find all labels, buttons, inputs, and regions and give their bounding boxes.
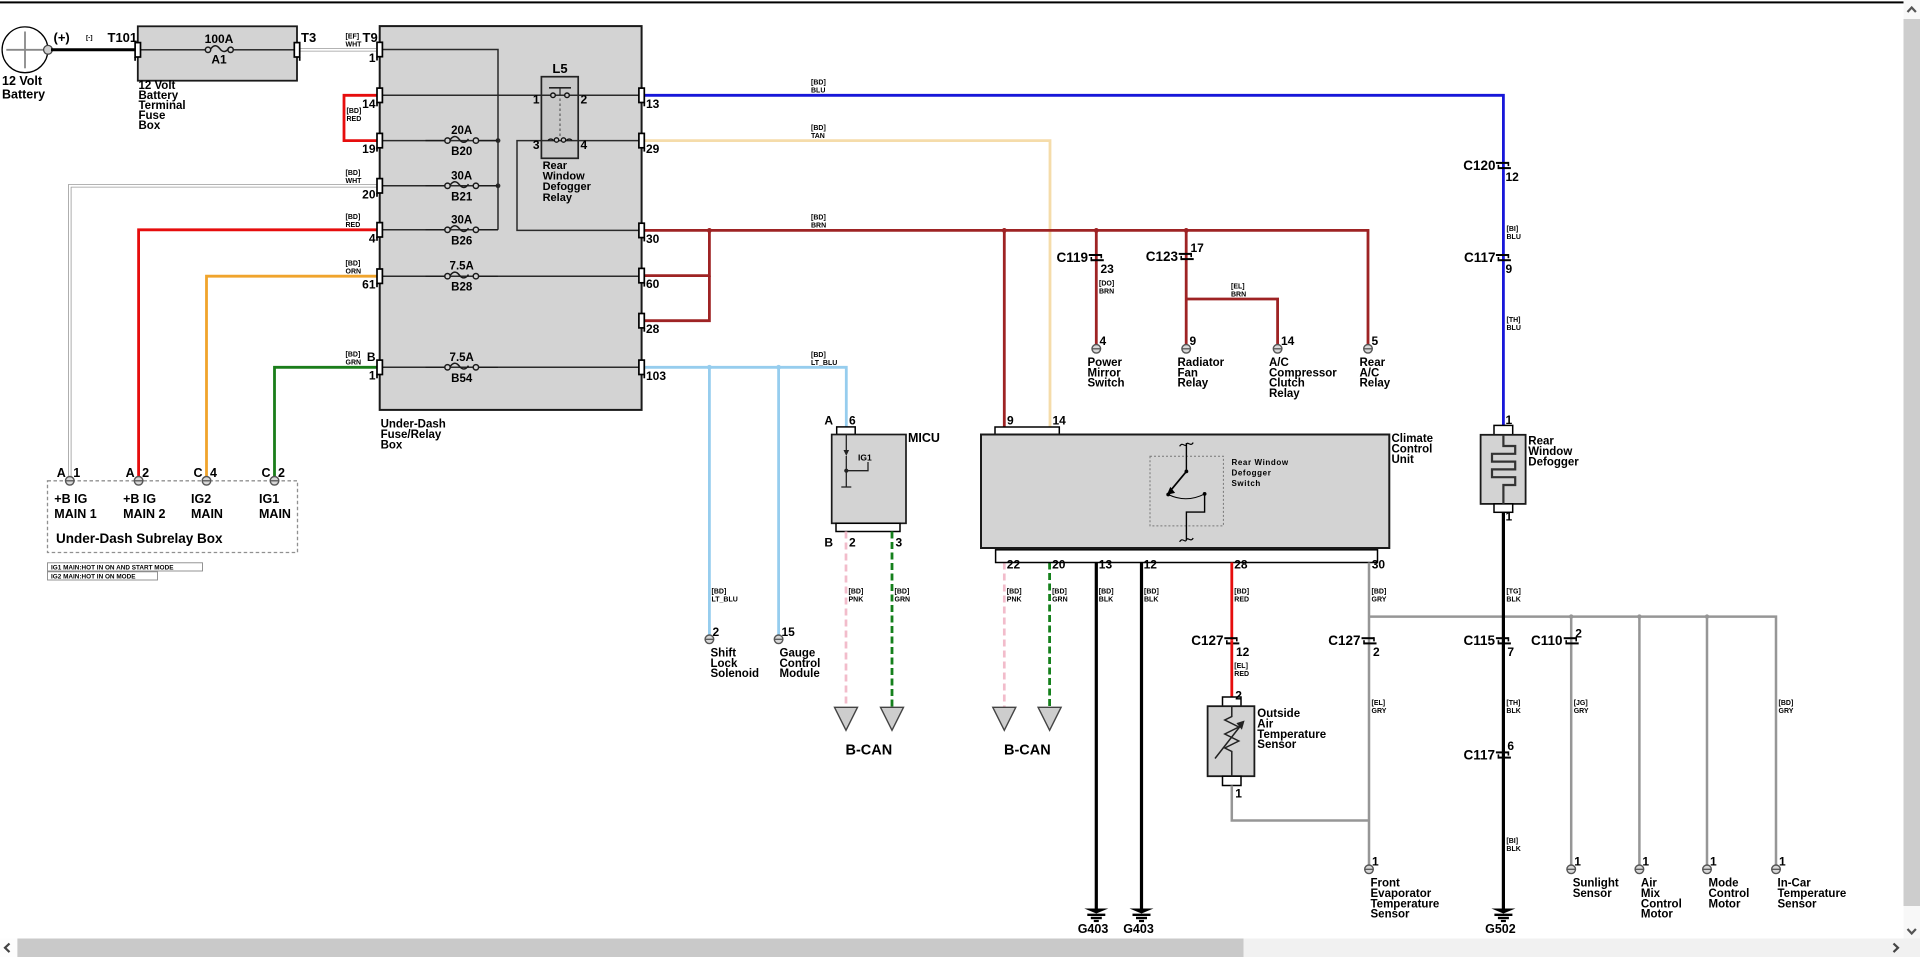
svg-text:C119: C119 — [1056, 250, 1088, 265]
svg-text:G502: G502 — [1485, 922, 1516, 936]
svg-text:[JG]: [JG] — [1574, 700, 1588, 707]
svg-text:1: 1 — [1642, 855, 1649, 869]
svg-text:60: 60 — [646, 277, 660, 291]
svg-text:PNK: PNK — [1007, 597, 1022, 604]
svg-text:Relay: Relay — [543, 192, 573, 204]
svg-text:13: 13 — [646, 97, 660, 111]
svg-text:2: 2 — [1235, 689, 1242, 703]
wire B26 row — [380, 229, 498, 231]
svg-text:12 Volt: 12 Volt — [2, 74, 43, 88]
connector C117 pin 9 — [1496, 254, 1509, 256]
svg-text:[BD]: [BD] — [1234, 589, 1249, 596]
node gry junction sunlight — [1569, 614, 1573, 618]
svg-text:17: 17 — [1191, 241, 1205, 255]
wire relay pin4 to pin 29 — [578, 140, 641, 142]
svg-text:Sensor: Sensor — [1778, 898, 1818, 910]
svg-text:9: 9 — [1007, 414, 1014, 428]
svg-text:20: 20 — [362, 187, 376, 201]
wire [BD] GRY climate pin30 — [1368, 563, 1371, 870]
wire brn drop to C119 — [1095, 230, 1098, 344]
svg-text:B26: B26 — [451, 235, 472, 247]
svg-text:[BD]: [BD] — [1007, 589, 1022, 596]
svg-text:4: 4 — [581, 138, 588, 152]
svg-text:4: 4 — [210, 466, 217, 480]
svg-text:Defogger: Defogger — [1528, 456, 1579, 468]
svg-text:+B IG: +B IG — [54, 492, 87, 506]
wire [BD] GRN climate pin20 — [1048, 563, 1051, 708]
svg-text:LT_BLU: LT_BLU — [811, 360, 837, 367]
terminal A2 subrelay — [134, 477, 143, 486]
svg-text:GRN: GRN — [346, 360, 362, 367]
fuse B21 30A — [426, 185, 448, 187]
svg-text:[BD]: [BD] — [811, 352, 826, 359]
svg-text:IG1 MAIN:HOT IN ON AND START M: IG1 MAIN:HOT IN ON AND START MODE — [51, 564, 174, 571]
connector C127 pin 2 evap — [1362, 637, 1375, 639]
svg-text:GRN: GRN — [1052, 597, 1068, 604]
terminal C2 subrelay — [270, 477, 279, 486]
svg-text:+B IG: +B IG — [123, 492, 156, 506]
svg-text:28: 28 — [1234, 558, 1248, 572]
node gry junction airmix — [1637, 614, 1641, 618]
B-CAN arrow pnk 1 — [835, 707, 858, 730]
Under-Dash Subrelay Box — [48, 481, 298, 553]
wire [BD] PNK climate pin22 — [1003, 563, 1006, 708]
terminal Rear A/C Relay pin 5 — [1364, 345, 1373, 354]
svg-text:Motor: Motor — [1641, 909, 1673, 921]
svg-text:GRY: GRY — [1372, 708, 1387, 715]
svg-text:BLU: BLU — [811, 88, 825, 95]
terminal A1 subrelay — [66, 477, 75, 486]
svg-text:C127: C127 — [1191, 633, 1223, 648]
svg-text:Switch: Switch — [1232, 479, 1261, 488]
svg-text:Box: Box — [381, 440, 403, 452]
connector C119 pin 23 — [1089, 254, 1102, 256]
terminal In-Car Temperature Sensor pin 1 — [1772, 865, 1781, 874]
svg-text:[BD]: [BD] — [849, 589, 864, 596]
svg-text:30A: 30A — [451, 170, 472, 182]
connector C110 pin 2 — [1564, 637, 1577, 639]
connector C127 pin 12 — [1224, 637, 1237, 639]
node bus-B20 — [496, 138, 501, 143]
svg-text:Sensor: Sensor — [1257, 739, 1297, 751]
connector C120 pin 12 — [1496, 162, 1509, 164]
fuse B28 7.5A — [426, 275, 448, 277]
svg-text:20A: 20A — [451, 125, 472, 137]
svg-text:BLK: BLK — [1506, 846, 1520, 853]
svg-text:MAIN 2: MAIN 2 — [123, 507, 165, 521]
connector C123 pin 17 — [1179, 253, 1192, 255]
svg-text:C: C — [261, 466, 270, 480]
svg-text:[BI]: [BI] — [1507, 226, 1519, 233]
svg-text:[EL]: [EL] — [1234, 663, 1248, 670]
svg-text:Rear Window: Rear Window — [1232, 458, 1289, 467]
wire relay pin3 to pin 30 — [517, 141, 642, 231]
svg-text:BLK: BLK — [1506, 708, 1520, 715]
svg-text:L5: L5 — [552, 61, 567, 76]
svg-text:7.5A: 7.5A — [450, 261, 474, 273]
svg-text:A1: A1 — [211, 53, 227, 67]
svg-text:2: 2 — [713, 625, 720, 639]
svg-text:[BD]: [BD] — [346, 260, 361, 267]
svg-text:BLK: BLK — [1144, 597, 1158, 604]
svg-text:2: 2 — [1373, 645, 1380, 659]
svg-text:C: C — [193, 466, 202, 480]
wire B20 row — [380, 140, 498, 142]
svg-text:13: 13 — [1099, 558, 1113, 572]
svg-text:C110: C110 — [1531, 633, 1563, 648]
svg-text:WHT: WHT — [346, 42, 363, 49]
svg-text:B20: B20 — [451, 146, 472, 158]
svg-text:MAIN 1: MAIN 1 — [54, 507, 96, 521]
svg-text:LT_BLU: LT_BLU — [712, 597, 738, 604]
wire B21 row — [380, 185, 498, 187]
wire pin60 to brn — [642, 230, 710, 275]
terminal Power Mirror Switch pin 4 — [1092, 345, 1101, 354]
node ltblu junction x778 — [776, 365, 781, 370]
svg-text:[EL]: [EL] — [1372, 700, 1386, 707]
note IG2 MAIN — [48, 572, 158, 580]
svg-text:1: 1 — [533, 93, 540, 107]
svg-text:RED: RED — [1234, 671, 1249, 678]
svg-text:[DO]: [DO] — [1099, 281, 1114, 288]
svg-text:6: 6 — [1507, 739, 1514, 753]
wire relay coil row — [380, 94, 642, 96]
connector C117 pin 6 — [1496, 751, 1509, 753]
svg-text:[BD]: [BD] — [811, 125, 826, 132]
wire brn drop to climate pin9 — [1003, 230, 1006, 427]
svg-text:19: 19 — [362, 142, 376, 156]
svg-text:BLU: BLU — [1507, 325, 1521, 332]
svg-text:A: A — [126, 466, 135, 480]
terminal Sunlight Sensor pin 1 — [1567, 865, 1576, 874]
node ltblu junction x709 — [707, 365, 712, 370]
svg-text:B-CAN: B-CAN — [1004, 743, 1051, 759]
connector C115 pin 7 — [1496, 637, 1509, 639]
svg-text:[BD]: [BD] — [346, 170, 361, 177]
wire B28 row — [380, 275, 642, 277]
svg-text:MAIN: MAIN — [191, 507, 223, 521]
wire [BD] WHT pin20 to subrelay A1 — [70, 186, 380, 477]
svg-text:[BD]: [BD] — [1099, 589, 1114, 596]
svg-text:(+): (+) — [54, 30, 70, 45]
svg-text:1: 1 — [73, 466, 80, 480]
svg-text:RED: RED — [1234, 597, 1249, 604]
node brn junction x1004 — [1002, 228, 1007, 233]
svg-text:Sensor: Sensor — [1573, 888, 1613, 900]
Outside Air Temperature Sensor — [1223, 697, 1242, 706]
node gry junction mode — [1705, 614, 1709, 618]
svg-text:Under-Dash Subrelay Box: Under-Dash Subrelay Box — [56, 531, 223, 546]
pin 20 left — [377, 179, 382, 193]
terminal Radiator Fan Relay pin 9 — [1182, 345, 1191, 354]
wire pin28 to brn — [642, 276, 710, 321]
svg-text:IG2 MAIN:HOT IN ON MODE: IG2 MAIN:HOT IN ON MODE — [51, 573, 136, 580]
svg-text:2: 2 — [581, 93, 588, 107]
svg-text:Sensor: Sensor — [1371, 909, 1411, 921]
fuse B26 30A — [426, 229, 448, 231]
svg-text:IG2: IG2 — [191, 492, 211, 506]
svg-text:Box: Box — [139, 120, 161, 132]
svg-text:A: A — [824, 414, 833, 428]
svg-text:2: 2 — [1575, 627, 1582, 641]
thermistor symbol — [1225, 706, 1239, 776]
MICU box — [837, 427, 856, 435]
svg-text:1: 1 — [1372, 855, 1379, 869]
svg-text:2: 2 — [849, 536, 856, 550]
svg-text:BRN: BRN — [1099, 289, 1114, 296]
svg-text:[BD]: [BD] — [346, 214, 361, 221]
svg-text:[EF]: [EF] — [346, 34, 360, 41]
bottom scrollbar — [0, 939, 1904, 957]
pin 103 right — [639, 360, 644, 374]
svg-text:IG1: IG1 — [259, 492, 279, 506]
wire C110 drop sunlight — [1570, 617, 1573, 865]
svg-text:BRN: BRN — [1231, 292, 1246, 299]
wire GRY sensor to evap line — [1232, 786, 1369, 821]
svg-text:1: 1 — [1574, 855, 1581, 869]
svg-text:[BD]: [BD] — [712, 589, 727, 596]
svg-text:14: 14 — [362, 97, 376, 111]
svg-text:G403: G403 — [1123, 922, 1154, 936]
svg-text:2: 2 — [142, 466, 149, 480]
svg-text:BLK: BLK — [1506, 597, 1520, 604]
svg-text:[-]: [-] — [86, 35, 93, 42]
wire airmix drop — [1638, 617, 1641, 865]
svg-text:1: 1 — [1506, 413, 1513, 427]
wire brn drop to C123 — [1185, 230, 1188, 344]
svg-text:7: 7 — [1507, 645, 1514, 659]
svg-text:30A: 30A — [451, 214, 472, 226]
svg-text:T101: T101 — [108, 30, 138, 45]
wire ltblu drop shift lock — [708, 367, 711, 635]
svg-text:GRY: GRY — [1574, 708, 1589, 715]
svg-text:Solenoid: Solenoid — [711, 668, 760, 680]
wire [BD] BLK climate pin12 to G403 — [1140, 563, 1143, 909]
switch symbol rear window defogger switch — [1180, 443, 1194, 447]
svg-text:IG1: IG1 — [858, 453, 872, 463]
svg-text:12: 12 — [1144, 558, 1158, 572]
ground G502 — [1491, 909, 1515, 914]
pin 29 right — [639, 133, 644, 147]
svg-text:TAN: TAN — [811, 133, 825, 140]
Climate Control Unit box — [995, 427, 1059, 435]
svg-text:[BD]: [BD] — [895, 589, 910, 596]
svg-text:C120: C120 — [1463, 158, 1495, 173]
terminal Gauge Control Module pin 15 — [774, 635, 783, 644]
ground G403 a — [1084, 909, 1108, 914]
svg-text:C117: C117 — [1463, 748, 1495, 763]
pin 14 left — [377, 88, 382, 102]
node brn junction x1186 — [1184, 228, 1189, 233]
svg-text:[BI]: [BI] — [1506, 838, 1518, 845]
wire [EL] RED to sensor — [1230, 641, 1233, 697]
svg-text:12: 12 — [1506, 170, 1520, 184]
terminal Mode Control Motor pin 1 — [1703, 865, 1712, 874]
wire [BD] BRN pin30 main run — [642, 230, 1368, 344]
relay L5 Rear Window Defogger Relay — [541, 77, 578, 159]
svg-text:[TG]: [TG] — [1506, 589, 1520, 596]
svg-text:4: 4 — [1100, 334, 1107, 348]
B-CAN arrow grn 2 — [1038, 707, 1061, 730]
fuse B54 7.5A — [426, 366, 448, 368]
svg-text:9: 9 — [1190, 334, 1197, 348]
pin 19 left — [377, 133, 382, 147]
svg-text:C127: C127 — [1328, 633, 1360, 648]
Under-Dash Fuse/Relay Box — [380, 26, 642, 410]
wire [BD] PNK MICU pin2 — [845, 532, 848, 708]
wire [BD] RED loop pin14 to pin19 — [344, 95, 380, 140]
svg-text:[BD]: [BD] — [1372, 589, 1387, 596]
defogger grid element — [1492, 435, 1515, 504]
wire mode drop — [1706, 617, 1709, 865]
svg-text:61: 61 — [362, 278, 376, 292]
svg-text:[EL]: [EL] — [1231, 284, 1245, 291]
svg-text:29: 29 — [646, 142, 660, 156]
Rear Window Defogger component — [1494, 425, 1513, 434]
ground G403 b — [1130, 909, 1154, 914]
wire [BD] RED pin4 to subrelay A2 — [139, 230, 380, 477]
svg-text:7.5A: 7.5A — [450, 352, 474, 364]
svg-text:BLK: BLK — [1099, 597, 1113, 604]
wire [BD] GRN pinB1 to subrelay C2 — [275, 367, 380, 476]
12 Volt Battery Terminal Fuse Box — [138, 26, 297, 80]
svg-text:C115: C115 — [1463, 633, 1495, 648]
svg-text:30: 30 — [1372, 558, 1386, 572]
fuse B20 20A — [426, 140, 448, 142]
top border line — [0, 1, 1904, 3]
svg-text:GRY: GRY — [1372, 597, 1387, 604]
svg-text:Switch: Switch — [1088, 378, 1125, 390]
wire [BD] GRN MICU pin3 — [891, 532, 894, 708]
fuse A1 100A — [138, 49, 206, 51]
svg-text:14: 14 — [1053, 414, 1067, 428]
svg-text:[BD]: [BD] — [346, 352, 361, 359]
svg-text:[BD]: [BD] — [347, 108, 362, 115]
pin B1 left — [377, 360, 382, 374]
terminal Air Mix Control Motor pin 1 — [1635, 865, 1644, 874]
svg-text:GRY: GRY — [1779, 708, 1794, 715]
svg-text:12: 12 — [1236, 645, 1250, 659]
svg-text:15: 15 — [782, 625, 796, 639]
svg-text:[TH]: [TH] — [1506, 700, 1520, 707]
svg-text:G403: G403 — [1078, 922, 1109, 936]
svg-text:Unit: Unit — [1392, 454, 1415, 466]
svg-text:A: A — [57, 466, 66, 480]
svg-text:30: 30 — [646, 232, 660, 246]
svg-text:BLU: BLU — [1507, 234, 1521, 241]
pin 1 left — [377, 42, 382, 56]
node brn junction x1096 — [1094, 228, 1099, 233]
symbol IG1 inside MICU — [845, 435, 847, 451]
pin 60 right — [639, 268, 644, 282]
wire internal bus from pin 1 — [380, 50, 498, 230]
svg-text:BRN: BRN — [811, 223, 826, 230]
svg-text:23: 23 — [1101, 262, 1115, 276]
pin 61 left — [377, 269, 382, 283]
svg-text:Battery: Battery — [2, 88, 45, 102]
terminal C4 subrelay — [202, 477, 211, 486]
svg-text:B28: B28 — [451, 282, 473, 294]
svg-text:WHT: WHT — [346, 178, 363, 185]
svg-text:1: 1 — [369, 369, 376, 383]
svg-text:3: 3 — [896, 536, 903, 550]
wire ltblu drop gauge — [777, 367, 780, 635]
svg-text:GRN: GRN — [895, 597, 911, 604]
svg-text:[BD]: [BD] — [811, 215, 826, 222]
svg-text:22: 22 — [1007, 558, 1021, 572]
B-CAN arrow pnk 2 — [993, 707, 1016, 730]
svg-text:6: 6 — [849, 414, 856, 428]
svg-text:20: 20 — [1052, 558, 1066, 572]
battery B1 12 Volt Battery — [2, 27, 48, 73]
svg-text:PNK: PNK — [849, 597, 864, 604]
pin T101 on fuse box left — [135, 43, 140, 57]
svg-text:4: 4 — [369, 231, 376, 245]
svg-text:B: B — [367, 350, 376, 364]
B-CAN arrow grn 1 — [881, 707, 904, 730]
pin 28 right — [639, 314, 644, 328]
svg-text:MAIN: MAIN — [259, 507, 291, 521]
wire battery to fuse box — [51, 48, 137, 51]
svg-text:T9: T9 — [363, 30, 378, 45]
svg-text:ORN: ORN — [346, 268, 362, 275]
wire [EL] BRN branch to AC compressor — [1186, 299, 1277, 345]
pin 4 left — [377, 223, 382, 237]
wire [BD] LT_BLU pin103 run — [642, 367, 847, 427]
wire [BD] TAN pin29 to climate pin14 — [642, 141, 1050, 427]
svg-text:B21: B21 — [451, 191, 473, 203]
svg-text:Relay: Relay — [1178, 378, 1209, 390]
wire WHT battery box to underdash box — [301, 48, 377, 51]
pin T3 on fuse box right — [294, 43, 299, 57]
svg-text:[BD]: [BD] — [1052, 589, 1067, 596]
svg-text:[BD]: [BD] — [1779, 700, 1794, 707]
svg-text:[BD]: [BD] — [1144, 589, 1159, 596]
pin 13 right — [639, 88, 644, 102]
svg-text:RED: RED — [347, 116, 362, 123]
right scrollbar — [1904, 0, 1920, 957]
svg-text:Relay: Relay — [1269, 388, 1300, 400]
svg-text:[TH]: [TH] — [1507, 317, 1521, 324]
svg-text:28: 28 — [646, 322, 660, 336]
svg-text:14: 14 — [1281, 334, 1295, 348]
svg-text:Motor: Motor — [1709, 898, 1741, 910]
svg-text:B54: B54 — [451, 373, 473, 385]
svg-text:1: 1 — [1235, 787, 1242, 801]
svg-text:5: 5 — [1372, 334, 1379, 348]
wire [BD] ORN pin61 to subrelay C4 — [207, 276, 380, 476]
svg-text:RED: RED — [346, 222, 361, 229]
svg-text:1: 1 — [1710, 855, 1717, 869]
node brn junction x709 — [707, 228, 712, 233]
terminal Front Evaporator Temperature Sensor pin 1 — [1365, 865, 1374, 874]
svg-text:[BD]: [BD] — [811, 80, 826, 87]
wire [BD] RED climate pin28 — [1230, 563, 1233, 641]
svg-text:9: 9 — [1506, 262, 1513, 276]
pin 30 right — [639, 223, 644, 237]
svg-text:C123: C123 — [1146, 249, 1179, 264]
svg-text:1: 1 — [1506, 510, 1513, 524]
svg-text:C117: C117 — [1464, 250, 1496, 265]
svg-text:1: 1 — [1779, 855, 1786, 869]
wire [TG] BLK defogger to G502 — [1502, 512, 1505, 908]
svg-text:Relay: Relay — [1360, 378, 1391, 390]
svg-text:3: 3 — [533, 138, 540, 152]
wire [BD] BLU pin13 to C120/C117/defogger — [642, 95, 1504, 425]
defogger switch dashed box — [1150, 456, 1223, 526]
node bus-B21 — [496, 183, 501, 188]
svg-text:Defogger: Defogger — [1232, 469, 1272, 478]
